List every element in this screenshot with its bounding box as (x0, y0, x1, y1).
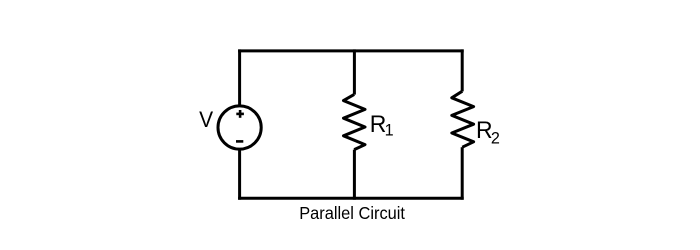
svg-text:1: 1 (385, 121, 394, 139)
voltage source V circle (218, 106, 261, 149)
wire middle branch bottom (R1 to node) (353, 150, 356, 200)
svg-text:Parallel Circuit: Parallel Circuit (299, 203, 405, 223)
wire top rail (238, 49, 464, 52)
svg-text:V: V (199, 107, 213, 132)
resistor R2 zigzag (452, 91, 474, 147)
wire left branch bottom (V- to node) (238, 149, 241, 200)
resistor R1 zigzag (344, 94, 366, 149)
svg-text:2: 2 (491, 129, 500, 147)
voltage source minus sign (236, 140, 243, 143)
wire right branch top (node to R2) (461, 49, 464, 91)
voltage source plus sign (236, 110, 244, 118)
wire middle branch top (node to R1) (353, 49, 356, 94)
wire left branch top (node to V+) (238, 49, 241, 106)
wire right branch bottom (R2 to node) (461, 147, 464, 200)
wire bottom rail (238, 197, 464, 200)
